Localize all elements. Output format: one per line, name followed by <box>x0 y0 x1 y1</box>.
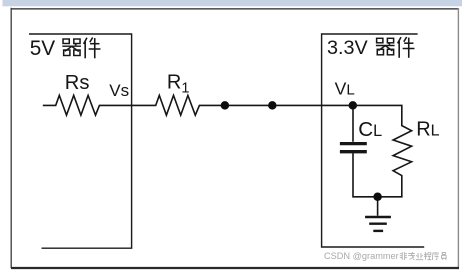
svg-text:5V: 5V <box>30 37 56 60</box>
svg-text:CL: CL <box>358 118 382 141</box>
svg-text:3.3V: 3.3V <box>327 37 368 59</box>
svg-text:Rs: Rs <box>65 72 90 94</box>
svg-text:VL: VL <box>335 79 355 99</box>
svg-text:RL: RL <box>416 118 439 140</box>
svg-text:CSDN @grammer: CSDN @grammer <box>324 251 399 261</box>
svg-text:Vs: Vs <box>109 81 129 100</box>
